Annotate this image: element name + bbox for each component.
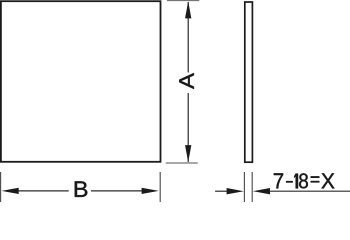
label 7 [274, 173, 283, 188]
dim A bottom tick [166, 162, 198, 164]
dim A arrow down [185, 145, 191, 162]
dim B left extension line [0, 172, 2, 202]
dim B arrow right [142, 188, 159, 194]
dim A line lower [187, 93, 189, 162]
dim X arrow pointing right [227, 188, 244, 194]
dim B line left [17, 190, 69, 192]
label dash [286, 181, 293, 183]
panel front view [1, 1, 161, 162]
dim X arrow pointing left [253, 188, 270, 194]
label equals [311, 176, 320, 182]
label X [321, 173, 334, 188]
dim X left extension line [243, 172, 245, 202]
dim X right tail line [269, 190, 350, 192]
dim A arrow up [185, 1, 191, 18]
dim B arrow left [2, 188, 19, 194]
label 8 [299, 173, 308, 188]
dim A line upper [187, 2, 189, 73]
label B [75, 181, 88, 196]
dim B right extension line [159, 172, 161, 202]
label 1 [294, 174, 298, 189]
dim X right extension line [251, 172, 253, 202]
dim B line right [91, 190, 143, 192]
label A [179, 73, 194, 89]
panel side view [245, 2, 253, 162]
dim X left tail line [215, 190, 228, 192]
dim A top tick [167, 0, 199, 2]
